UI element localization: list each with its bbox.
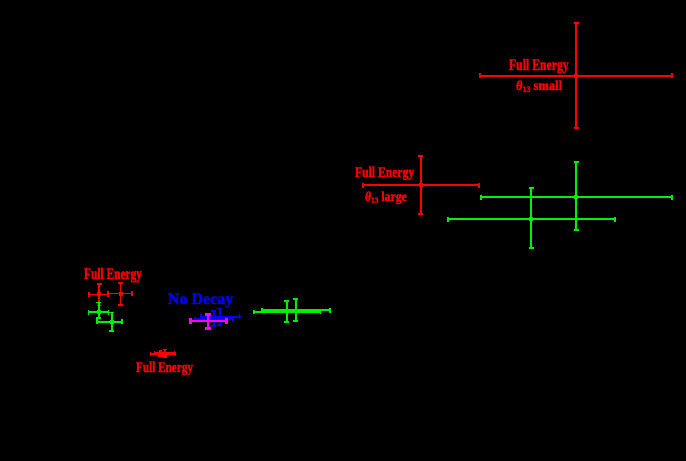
marker: red cluster point 1 <box>97 292 101 296</box>
marker: green cluster point 2 <box>110 320 114 324</box>
error bar: tiny red horizontal C <box>158 355 167 357</box>
error bar: green cluster point 1 horizontal <box>88 311 110 313</box>
error bar: green cluster point 2 horizontal <box>96 321 123 323</box>
error bar: tiny red horizontal B <box>154 352 176 353</box>
marker: blue No-Decay center <box>218 316 223 321</box>
error bar: red cluster point 2 horizontal <box>107 293 133 295</box>
marker: green pair point 2 <box>294 309 298 313</box>
error bar: blue No-Decay point 1 horizontal <box>200 316 241 318</box>
error bar: green point B horizontal <box>447 218 616 220</box>
label: theta13 small <box>516 80 562 94</box>
label: Full Energy (cluster top left) <box>84 267 142 283</box>
error bar: tiny red vertical A <box>164 349 166 359</box>
error bar: blue No-Decay point 1 vertical <box>213 310 215 327</box>
label: Full Energy (top right) <box>509 58 569 74</box>
label: theta13 large <box>365 191 407 205</box>
label: No Decay <box>168 292 233 308</box>
error bar: green point A vertical <box>575 161 577 231</box>
marker: green point B center <box>529 217 534 222</box>
error bar: red cluster point 1 horizontal <box>88 294 109 296</box>
label: Full Energy (bottom) <box>136 361 193 376</box>
error bar: green point B vertical <box>530 187 532 249</box>
error bar: green point A horizontal <box>480 196 673 198</box>
error bar: tiny red vertical B <box>160 350 162 356</box>
marker: red cluster point 2 <box>119 292 123 296</box>
error bar: green pair vertical 1 <box>286 300 288 322</box>
error bar: tiny red horizontal A <box>150 353 177 355</box>
marker: green point A center <box>574 195 579 200</box>
error bar: blue No-Decay point 2 vertical <box>219 308 221 327</box>
error bar: Full Energy theta13-small horizontal <box>479 75 673 77</box>
error bar: green pair vertical 2 <box>295 298 297 322</box>
error bar: green pair upper horizontal <box>261 309 331 311</box>
error bar: magenta No-Decay horizontal <box>189 320 227 322</box>
error bar: magenta No-Decay vertical <box>207 313 209 330</box>
error bar: green cluster point 2 vertical <box>111 312 113 332</box>
error bar: Full Energy theta13-large horizontal <box>362 184 481 186</box>
error bar: green cluster point 1 vertical <box>98 302 100 319</box>
marker: Full Energy theta13-small center <box>574 74 579 79</box>
error bar: red cluster point 2 vertical <box>120 282 122 306</box>
error bar: Full Energy theta13-small vertical <box>575 22 577 130</box>
error bar: Full Energy theta13-large vertical <box>420 155 422 215</box>
error bar: green pair lower horizontal <box>253 311 321 313</box>
marker: tiny red center <box>162 352 165 355</box>
error bar: blue No-Decay point 2 horizontal <box>194 318 234 320</box>
marker: green cluster point 1 <box>97 310 101 314</box>
marker: Full Energy theta13-large center <box>419 183 424 188</box>
error bar: red cluster point 1 vertical <box>98 283 100 307</box>
marker: green pair point 1 <box>285 309 289 313</box>
label: Full Energy (middle) <box>355 166 414 181</box>
